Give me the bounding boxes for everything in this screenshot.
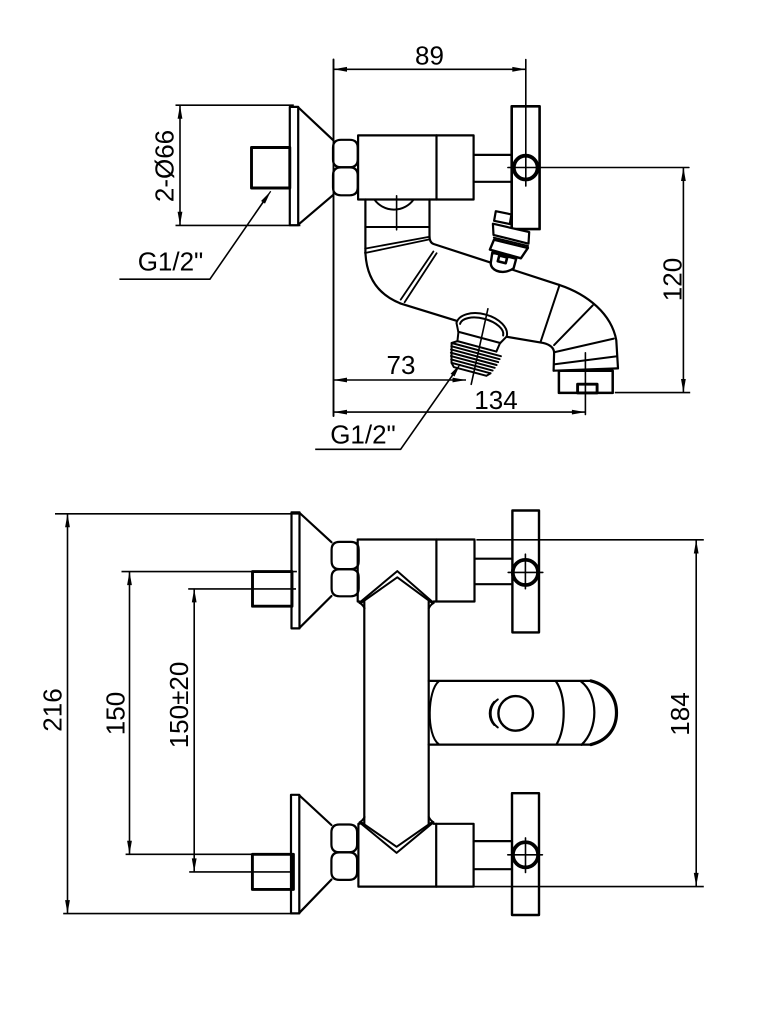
- svg-text:G1/2": G1/2": [138, 247, 204, 277]
- spout outer elbow arc: [559, 285, 618, 369]
- diverter knob stem: [491, 253, 516, 272]
- chevron bottom (plan): [360, 822, 434, 853]
- flange cone top (plan): [300, 513, 332, 628]
- spout meridian arc B (plan): [581, 681, 595, 745]
- hex nut top (plan): [332, 542, 359, 596]
- spout left end cap arc (plan): [430, 681, 439, 744]
- spout meridian arc A (plan): [556, 681, 564, 744]
- text 120: [658, 258, 688, 301]
- dimension 89 line: [334, 68, 526, 70]
- dimension 184 line: [475, 540, 704, 887]
- spout top edge diagonal: [430, 236, 559, 285]
- elbow facet line F3: [555, 339, 614, 352]
- outlet centerline: [584, 353, 586, 415]
- text 2-066: [150, 130, 180, 202]
- flare facet line: [555, 356, 616, 364]
- crosshair top circle: [508, 554, 543, 589]
- svg-text:184: 184: [665, 692, 695, 735]
- cartridge dome arc under body: [374, 200, 413, 210]
- dimension 120 line: [615, 168, 690, 393]
- dimension 216 line: [55, 514, 299, 914]
- svg-text:73: 73: [387, 350, 416, 380]
- block-pipe chamfers top: [359, 603, 433, 609]
- spout seam pair lower: [401, 252, 437, 303]
- wall nipple G1/2 (side view): [252, 148, 290, 189]
- block-pipe chamfers bottom: [360, 817, 434, 823]
- shower connector G1/2 (rotated group): [445, 308, 510, 378]
- nipple top (plan): [253, 572, 293, 607]
- svg-text:134: 134: [474, 385, 517, 415]
- spout seam pair upper: [365, 237, 429, 253]
- handle hub circle (side view): [514, 156, 538, 180]
- shower connector centerline: [471, 309, 488, 385]
- text 134: [474, 385, 517, 415]
- flare left edge: [552, 353, 555, 371]
- text 184: [665, 692, 695, 735]
- svg-text:150: 150: [101, 692, 131, 735]
- wall reference line: [333, 60, 335, 417]
- valve block bottom (plan): [358, 824, 473, 887]
- connecting pipe (plan): [364, 602, 428, 824]
- flare bottom edge: [554, 368, 618, 370]
- svg-text:G1/2": G1/2": [330, 419, 396, 449]
- text G1/2 bottom: [330, 419, 396, 449]
- text 150: [101, 692, 131, 735]
- leader G1/2 bottom: [315, 364, 460, 449]
- hex nut (side view): [333, 140, 358, 196]
- handle horizontal centerline / 120 extension: [508, 167, 689, 169]
- crosshair bottom circle: [508, 838, 543, 873]
- diverter knob band seam: [494, 238, 528, 246]
- diverter knob band: [493, 224, 529, 244]
- dimension 134 line: [334, 411, 586, 413]
- handle hub circle top (plan): [513, 560, 538, 585]
- text 89: [415, 41, 444, 71]
- svg-text:2-Ø66: 2-Ø66: [150, 130, 180, 202]
- handle hub circle bottom (plan): [513, 842, 538, 867]
- handle bar (side view): [512, 106, 540, 229]
- dimension 150 line: [122, 572, 297, 855]
- down-pipe seam: [365, 226, 429, 228]
- flange plate bottom (plan): [291, 795, 299, 914]
- valve body (side view): [358, 135, 474, 199]
- aerator body (side view): [559, 371, 613, 393]
- chevron top (plan): [360, 571, 434, 603]
- text 73: [387, 350, 416, 380]
- knob circle (plan): [498, 696, 533, 731]
- knob sleeve arcs (plan): [490, 699, 498, 727]
- svg-text:120: 120: [658, 258, 688, 301]
- spout left elbow outer curve: [365, 252, 400, 303]
- aerator notch: [578, 384, 598, 393]
- wall flange cone (side view): [298, 108, 333, 225]
- svg-text:150±20: 150±20: [164, 662, 194, 749]
- handle bar bottom (plan): [512, 793, 539, 915]
- diverter knob cap: [494, 211, 511, 224]
- handle vertical centerline / 89 extension: [525, 60, 527, 187]
- diverter knob body: [490, 240, 528, 259]
- spout bottom edge diagonal: [400, 303, 554, 352]
- handle bar top (plan): [512, 511, 539, 633]
- valve block top (plan): [358, 540, 475, 602]
- spout down-pipe: [365, 200, 429, 253]
- flange cone bottom (plan): [300, 796, 332, 913]
- hex nut bottom (plan): [331, 825, 357, 880]
- handle stem top (plan): [476, 559, 513, 585]
- text G1/2 top: [138, 247, 204, 277]
- svg-text:89: 89: [415, 41, 444, 71]
- dimension 73 line: [334, 379, 467, 381]
- handle stem lines (side view): [474, 155, 512, 182]
- spout outer end cap (plan): [591, 681, 617, 745]
- dimension 150+-20 line: [188, 589, 296, 872]
- handle stem bottom (plan): [474, 841, 512, 869]
- leader G1/2 top: [119, 191, 270, 279]
- svg-text:216: 216: [38, 688, 68, 731]
- cartridge centerline: [396, 196, 398, 230]
- diverter knob notch: [498, 256, 507, 264]
- elbow facet line F1: [540, 285, 559, 342]
- spout stadium (plan): [429, 681, 591, 745]
- wall flange plate (side view): [290, 107, 298, 225]
- elbow facet line F2: [554, 305, 593, 345]
- flange plate top (plan): [292, 512, 300, 628]
- dimension 2-066 line: [176, 105, 301, 225]
- text 150+-20: [164, 662, 194, 749]
- nipple bottom (plan): [252, 854, 293, 889]
- text 216: [38, 688, 68, 731]
